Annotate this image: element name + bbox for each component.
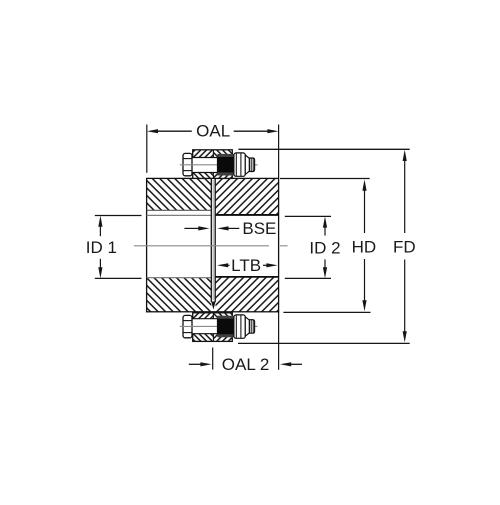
svg-text:FD: FD xyxy=(393,237,416,256)
main horizontal centerline xyxy=(134,245,269,247)
OAL dim line right + arrow xyxy=(267,129,278,133)
FD top extension line xyxy=(238,148,409,150)
ID1 bottom extension line xyxy=(95,277,142,279)
ID 2 dimension xyxy=(285,216,341,278)
hex bolt head xyxy=(183,153,192,175)
svg-text:ID 1: ID 1 xyxy=(86,238,117,257)
OAL left extension line xyxy=(146,125,148,173)
svg-text:BSE: BSE xyxy=(242,219,276,238)
hub body left half hatch top xyxy=(147,178,212,210)
bottom bolt assembly (mirror) xyxy=(180,313,258,342)
OAL2 right extension line xyxy=(278,312,280,370)
boss hatch top strip right xyxy=(213,150,232,158)
FD dimension xyxy=(238,149,416,343)
svg-text:ID 2: ID 2 xyxy=(309,238,340,257)
bore line left hub keyway top xyxy=(147,209,212,211)
OAL2 right arrow (outside, pointing left) xyxy=(280,362,291,366)
OAL dimension xyxy=(147,122,279,178)
bore line left hub top xyxy=(147,214,212,216)
OAL2 left extension line xyxy=(212,348,214,370)
nut taper xyxy=(245,155,249,174)
hub body right half hatch top xyxy=(216,178,279,215)
hub body left half hatch bottom xyxy=(147,278,212,312)
ID2 dim line up arrow xyxy=(323,216,327,227)
bore line left hub bottom xyxy=(147,277,212,279)
bore line right hub bottom xyxy=(216,276,279,278)
centerline stub right xyxy=(280,245,288,247)
split line right xyxy=(214,178,216,302)
LTB right arrow (pointing right) xyxy=(263,264,268,266)
ID1 dim line up arrow xyxy=(98,216,102,227)
OAL2 left arrow (outside, pointing right) xyxy=(189,363,202,365)
ID2 dim line down arrow xyxy=(323,267,327,278)
ID1 dim line down arrow xyxy=(98,267,102,278)
boss hatch bottom strip right xyxy=(213,173,232,179)
HD dim line + arrows xyxy=(362,180,366,191)
BSE right arrow (pointing left at split) xyxy=(217,226,228,230)
hub body outline xyxy=(147,178,279,311)
bolt tip xyxy=(249,158,254,172)
svg-text:LTB: LTB xyxy=(231,256,261,275)
split bottom point xyxy=(211,302,215,310)
threaded section xyxy=(217,156,234,172)
LTB left arrow (pointing left) xyxy=(217,263,228,267)
OAL dim line left + arrow xyxy=(147,129,158,133)
nut xyxy=(234,153,245,176)
top bolt assembly xyxy=(180,150,258,179)
FD bottom extension line xyxy=(238,342,410,344)
bolt centerline xyxy=(180,164,258,166)
BSE left arrow (pointing right at split) xyxy=(184,227,199,229)
ID1 top extension line xyxy=(95,215,142,217)
svg-text:OAL 2: OAL 2 xyxy=(222,355,270,374)
OAL right extension line xyxy=(278,125,280,179)
ID2 bottom extension line xyxy=(285,277,331,279)
ID2 top extension line xyxy=(285,215,331,217)
split line left xyxy=(210,178,212,302)
OAL 2 dimension xyxy=(189,312,302,374)
LTB dimension xyxy=(217,256,278,275)
bolt shank hole xyxy=(192,158,218,173)
BSE dimension xyxy=(184,219,276,238)
hub body right half hatch bottom xyxy=(216,277,279,312)
svg-text:OAL: OAL xyxy=(196,122,230,141)
flange boss top xyxy=(193,150,233,179)
ID 1 dimension xyxy=(86,216,142,279)
boss hatch top strip left xyxy=(193,150,214,158)
boss split line xyxy=(212,150,214,158)
split centerline grey xyxy=(212,180,214,300)
HD top extension line xyxy=(280,178,370,180)
svg-text:HD: HD xyxy=(352,237,377,256)
boss hatch bottom strip left xyxy=(193,173,214,179)
bore line right hub top xyxy=(216,214,279,216)
HD bottom extension line xyxy=(283,311,370,313)
HD dimension xyxy=(280,179,376,313)
FD dim line + arrows xyxy=(403,150,407,161)
